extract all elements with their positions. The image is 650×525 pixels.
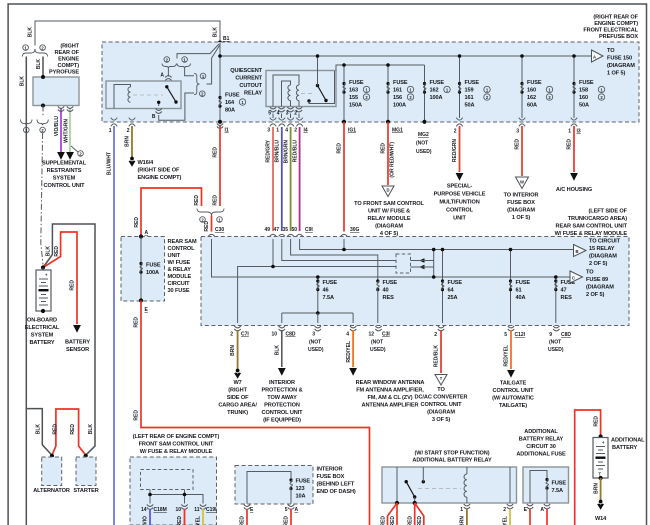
svg-text:TO: TO <box>586 270 594 276</box>
fuse 64 <box>442 250 444 324</box>
fuse 123 <box>289 478 292 490</box>
svg-text:156: 156 <box>393 95 402 101</box>
svg-text:FUSE: FUSE <box>225 93 240 99</box>
svg-text:TO: TO <box>607 48 615 54</box>
svg-text:RED: RED <box>240 516 246 525</box>
wire RED from fuse100A A-node horizontal <box>141 188 202 237</box>
relay coil1 <box>288 85 291 101</box>
svg-text:RED: RED <box>594 416 600 427</box>
svg-text:BLK: BLK <box>88 424 94 435</box>
variant circle 2 bottom <box>40 127 46 133</box>
wire BLK variant1 long left run down to alternator branch <box>25 57 27 525</box>
wire RED battery to sensor <box>43 232 77 324</box>
svg-text:RED: RED <box>70 280 76 291</box>
svg-text:2: 2 <box>294 111 297 117</box>
svg-text:W/ FUSE: W/ FUSE <box>168 260 191 266</box>
wire variant1 to right brace <box>185 68 194 75</box>
svg-text:BRN: BRN <box>594 483 600 494</box>
relay fixed contact to bus2 <box>307 99 310 102</box>
svg-text:150A: 150A <box>349 103 362 109</box>
relay coil2 <box>296 85 299 101</box>
svg-text:COMPT): COMPT) <box>58 63 80 69</box>
additional battery relay box <box>382 467 517 503</box>
svg-text:160: 160 <box>579 95 588 101</box>
svg-text:BLK: BLK <box>213 27 219 38</box>
svg-text:(LEFT SIDE OF: (LEFT SIDE OF <box>589 209 628 215</box>
svg-text:5: 5 <box>268 111 271 117</box>
svg-text:(RIGHT: (RIGHT <box>60 44 79 50</box>
connector X 50 RED/BLU <box>296 118 302 127</box>
svg-text:158: 158 <box>579 88 588 94</box>
interior fuse box exits <box>244 505 250 510</box>
ground W16/4 <box>129 157 136 167</box>
wire RED/YEL tailgate <box>510 330 512 369</box>
wire BLK variant2 into pyrofuse <box>42 57 44 78</box>
svg-text:B: B <box>576 249 579 254</box>
connector X 49 RED/GRY <box>270 118 276 127</box>
interior fuse box wires <box>247 472 291 504</box>
svg-text:(W/ START STOP FUNCTION): (W/ START STOP FUNCTION) <box>415 451 490 457</box>
svg-text:FUSE: FUSE <box>516 280 531 286</box>
svg-text:RED: RED <box>194 195 200 206</box>
svg-text:(NOT: (NOT <box>371 340 383 346</box>
svg-text:RED: RED <box>515 139 521 150</box>
svg-text:CUTOUT: CUTOUT <box>239 83 262 89</box>
relay right wire pin2 <box>509 467 511 503</box>
wire YEL front SAM <box>202 509 204 525</box>
svg-text:2: 2 <box>454 129 457 135</box>
svg-text:162: 162 <box>527 95 536 101</box>
svg-text:FUSE 89: FUSE 89 <box>586 277 608 283</box>
wire from brace tip to bus1 <box>207 46 220 85</box>
svg-text:(NOT: (NOT <box>416 141 428 147</box>
brace pair above variant circles at bottom of BLK runs <box>21 120 33 126</box>
svg-text:USED): USED) <box>548 347 564 353</box>
svg-text:50: 50 <box>291 227 297 233</box>
svg-text:C18M: C18M <box>154 507 167 513</box>
wire RED to A/C housing <box>573 126 575 172</box>
svg-text:FUSE: FUSE <box>552 481 567 487</box>
svg-text:10: 10 <box>271 332 277 338</box>
svg-text:RES: RES <box>383 295 395 301</box>
connector pin9 C8D not used <box>553 326 559 331</box>
wire RED alternator-starter jumper <box>52 409 86 455</box>
rear SAM box <box>201 237 629 326</box>
svg-text:C12I: C12I <box>515 332 526 338</box>
fuse 7.5A <box>545 478 548 490</box>
svg-text:CONTROL UNIT: CONTROL UNIT <box>44 183 86 189</box>
triangle A to fuse 150 <box>592 50 604 62</box>
svg-text:UNIT: UNIT <box>168 253 181 259</box>
svg-text:USED): USED) <box>308 347 324 353</box>
relay coil lead <box>114 85 131 109</box>
svg-text:(DIAGRAM: (DIAGRAM <box>507 208 535 214</box>
svg-text:2: 2 <box>127 128 130 134</box>
node E <box>139 298 143 302</box>
connector pin3 not used <box>315 326 321 331</box>
svg-text:RED: RED <box>390 516 396 525</box>
relay pin2 connector <box>507 504 513 509</box>
wire BRN to ground <box>131 126 133 157</box>
wire BRN to W7 <box>237 330 239 369</box>
wire BRN/BLU <box>281 127 283 231</box>
exits E and A <box>527 504 533 509</box>
node pyrofuse top <box>41 75 45 79</box>
svg-text:ADDITIONAL BATTERY RELAY: ADDITIONAL BATTERY RELAY <box>412 458 492 464</box>
node relay left exit <box>395 501 399 505</box>
svg-text:RED: RED <box>204 221 210 232</box>
wire RED I1 down <box>219 126 221 206</box>
svg-text:47: 47 <box>561 288 567 294</box>
svg-text:2: 2 <box>294 128 297 134</box>
svg-text:C8D: C8D <box>561 332 571 338</box>
dash-dot wire pyrofuse to battery <box>41 106 43 265</box>
svg-text:ENGINE COMPT): ENGINE COMPT) <box>594 21 638 27</box>
wire C30 to row B <box>212 239 571 277</box>
fuse 47 <box>555 277 557 323</box>
svg-text:(RIGHT REAR OF: (RIGHT REAR OF <box>593 15 638 21</box>
svg-text:INTERIOR: INTERIOR <box>269 380 295 386</box>
connector X pin2 RED/GRN <box>456 118 462 127</box>
triangle W interior fuse box <box>516 177 529 189</box>
interior fuse box <box>235 466 313 505</box>
svg-text:A: A <box>540 507 544 513</box>
svg-text:(IF EQUIPPED): (IF EQUIPPED) <box>263 418 301 424</box>
brace pair under variant circles <box>162 64 176 69</box>
wire BLK interior protection <box>281 330 283 367</box>
svg-text:40: 40 <box>383 288 389 294</box>
svg-text:REAR OF: REAR OF <box>55 50 80 56</box>
wire WHT/GRN from pyrofuse <box>69 109 71 153</box>
wire RED circuit30 run to bottom right <box>141 301 370 525</box>
fuse 46 <box>317 277 319 313</box>
wire VIO front SAM <box>149 509 151 525</box>
svg-text:A/C HOUSING: A/C HOUSING <box>556 187 592 193</box>
inner wire E to A <box>530 471 547 504</box>
front SAM inner module box <box>141 470 194 490</box>
svg-text:4: 4 <box>285 128 288 134</box>
svg-text:3 OF 5): 3 OF 5) <box>432 417 450 423</box>
svg-text:40A: 40A <box>516 295 526 301</box>
svg-text:FRONT SAM CONTROL UNIT: FRONT SAM CONTROL UNIT <box>139 442 214 448</box>
arrow antenna <box>349 368 357 376</box>
svg-text:W/ FUSE & RELAY MODULE: W/ FUSE & RELAY MODULE <box>140 449 213 455</box>
node MG1 <box>386 120 390 124</box>
connectors into rear SAM <box>270 234 276 239</box>
node A <box>139 234 143 238</box>
svg-text:12: 12 <box>368 332 374 338</box>
fuse 159/161 <box>459 56 461 118</box>
svg-text:161: 161 <box>465 95 474 101</box>
node I1 on prefuse edge <box>218 120 222 124</box>
svg-text:47: 47 <box>273 227 279 233</box>
wire 50 to row A <box>300 239 574 250</box>
svg-text:SPECIAL-: SPECIAL- <box>447 184 473 190</box>
junction on bus1 <box>316 54 320 58</box>
svg-text:2: 2 <box>434 332 437 338</box>
svg-text:DC/AC CONVERTER: DC/AC CONVERTER <box>415 395 468 401</box>
relay pins 5 4 3 2 connectors <box>270 107 276 112</box>
svg-text:1 OF 5): 1 OF 5) <box>607 71 625 77</box>
wire 30G to row A <box>343 239 345 250</box>
fuse 161/156 <box>387 65 389 122</box>
svg-text:(DIAGRAM: (DIAGRAM <box>589 254 617 260</box>
svg-text:TO: TO <box>437 387 445 393</box>
arrow tailgate <box>507 370 515 378</box>
front electrical prefuse box <box>102 42 639 122</box>
relay coil <box>466 467 468 474</box>
node alternator <box>50 454 54 458</box>
svg-text:REAR SAM CONTROL UNIT: REAR SAM CONTROL UNIT <box>556 224 628 230</box>
connector 30G <box>341 234 347 239</box>
ground W7 <box>234 369 241 379</box>
svg-text:5: 5 <box>504 332 507 338</box>
svg-text:FUSE: FUSE <box>393 80 408 86</box>
svg-text:3: 3 <box>312 332 315 338</box>
svg-text:CARGO AREA/: CARGO AREA/ <box>218 403 257 409</box>
svg-text:YEL: YEL <box>503 516 509 525</box>
svg-text:FUSE: FUSE <box>579 80 594 86</box>
wire 49 level <box>273 239 396 267</box>
connector C8D exit <box>279 326 285 331</box>
node additional battery plus <box>599 434 603 438</box>
variant circle 2 <box>40 45 46 51</box>
front SAM box <box>130 457 217 525</box>
wire RED pair left <box>388 503 398 525</box>
relay coil exit connector pin1 <box>464 504 470 509</box>
triangle B circuit 15 relay <box>574 245 587 257</box>
relay switch arm quiescent <box>318 86 327 101</box>
svg-text:CIRCUIT: CIRCUIT <box>168 281 191 287</box>
wire BRN to ground W14 <box>600 478 602 500</box>
svg-text:100A: 100A <box>146 270 159 276</box>
svg-text:C: C <box>572 275 575 280</box>
diode join vertical <box>433 250 435 278</box>
wire RED front SAM <box>184 509 186 525</box>
wire BRN/GRN <box>290 127 292 231</box>
pyrofuse box <box>33 77 79 106</box>
svg-text:CONTROL UNIT: CONTROL UNIT <box>493 388 535 394</box>
connector pin12 C3I not used <box>375 326 381 331</box>
svg-text:BATTERY: BATTERY <box>29 340 54 346</box>
svg-text:RED: RED <box>381 516 387 525</box>
alternator box <box>42 457 62 486</box>
svg-text:PYROFUSE: PYROFUSE <box>49 70 79 76</box>
svg-text:B1: B1 <box>223 36 230 42</box>
svg-text:5: 5 <box>285 507 288 513</box>
variant path wire from B1 to relay A braces <box>177 44 219 59</box>
svg-text:(NOT: (NOT <box>549 340 561 346</box>
svg-text:(NOT: (NOT <box>309 340 321 346</box>
connector C30 <box>208 234 214 239</box>
svg-text:10A: 10A <box>296 494 306 500</box>
connector VIO/BLU <box>58 107 64 112</box>
svg-text:BRN: BRN <box>125 136 131 147</box>
relay switch arm <box>406 482 415 497</box>
wire RED under A <box>546 509 548 525</box>
svg-text:61: 61 <box>516 288 522 294</box>
svg-text:(DIAGRAM: (DIAGRAM <box>427 410 455 416</box>
svg-text:BATTERY: BATTERY <box>65 340 90 346</box>
brace right (collector) <box>194 73 200 94</box>
additional battery <box>593 438 608 479</box>
svg-text:1: 1 <box>276 128 279 134</box>
svg-text:CURRENT: CURRENT <box>235 76 262 82</box>
arrow interior protection <box>278 368 286 376</box>
svg-text:UNIT W/ FUSE &: UNIT W/ FUSE & <box>368 209 410 215</box>
svg-text:BRN/GRN: BRN/GRN <box>284 140 290 164</box>
svg-text:IG1: IG1 <box>348 128 356 134</box>
relay fixed contact <box>422 480 425 483</box>
relay inner wire pin5 <box>273 75 299 107</box>
svg-text:163: 163 <box>349 88 358 94</box>
svg-text:CONTROL: CONTROL <box>446 208 474 214</box>
svg-text:ENGINE COMPT): ENGINE COMPT) <box>138 175 182 181</box>
svg-text:W14: W14 <box>595 516 607 522</box>
svg-text:CONTROL UNIT: CONTROL UNIT <box>421 402 463 408</box>
svg-text:USED): USED) <box>416 149 432 155</box>
svg-text:(DIAGRAM: (DIAGRAM <box>607 63 635 69</box>
svg-text:RELAY MODULE: RELAY MODULE <box>368 216 411 222</box>
arrow to SRS (VIO/BLU) <box>57 152 65 160</box>
svg-text:MG2: MG2 <box>418 132 429 138</box>
variant circle 2 <box>164 57 170 63</box>
svg-text:123: 123 <box>296 486 305 492</box>
diode module box <box>396 254 411 273</box>
relay link dashed <box>301 93 314 95</box>
node B1 <box>218 41 222 45</box>
wire RED pair right <box>414 503 416 525</box>
wire RED interior E <box>246 509 248 525</box>
svg-text:RED/YEL: RED/YEL <box>346 341 352 363</box>
connector B <box>156 109 162 114</box>
svg-text:161: 161 <box>393 88 402 94</box>
connector WHT/GRN <box>67 107 73 112</box>
svg-text:ALTERNATOR: ALTERNATOR <box>33 488 70 494</box>
svg-text:1: 1 <box>109 128 112 134</box>
svg-text:FUSE: FUSE <box>349 80 364 86</box>
svg-text:RED: RED <box>408 516 414 525</box>
svg-text:30G: 30G <box>350 227 360 233</box>
svg-text:7.5A: 7.5A <box>552 488 563 494</box>
svg-text:A: A <box>295 507 299 513</box>
relay inner left wire <box>396 467 398 503</box>
fuse 61 <box>510 250 512 324</box>
wire RED/GRY <box>272 127 274 231</box>
svg-text:FUSE: FUSE <box>527 80 542 86</box>
svg-text:PROTECTION &: PROTECTION & <box>261 388 302 394</box>
svg-text:RED: RED <box>54 246 60 257</box>
fuse 46 distribution bar <box>282 312 353 314</box>
svg-text:TRUNK): TRUNK) <box>227 410 248 416</box>
relay switch arm <box>167 87 176 102</box>
relay coil <box>128 87 131 102</box>
svg-text:ADDITIONAL FUSE: ADDITIONAL FUSE <box>516 452 566 458</box>
svg-text:2: 2 <box>230 332 233 338</box>
svg-text:ADDITIONAL: ADDITIONAL <box>524 429 558 435</box>
svg-text:BLK: BLK <box>36 424 42 435</box>
svg-text:ELECTRICAL: ELECTRICAL <box>25 325 60 331</box>
svg-text:9: 9 <box>549 332 552 338</box>
svg-text:I1: I1 <box>225 128 229 134</box>
variant circle 2 right <box>200 91 206 97</box>
svg-text:MODULE: MODULE <box>168 274 192 280</box>
relay coil tails to pins 3,2 <box>290 101 292 107</box>
svg-text:1: 1 <box>568 129 571 135</box>
svg-text:BATTERY: BATTERY <box>612 445 637 451</box>
svg-text:3: 3 <box>267 128 270 134</box>
connector pin2 RED/BLK exit <box>438 326 444 331</box>
svg-text:PURPOSE VEHICLE: PURPOSE VEHICLE <box>434 192 486 198</box>
svg-text:FUSE BOX: FUSE BOX <box>507 200 535 206</box>
wire pivot to bus1 <box>317 56 319 86</box>
svg-text:159: 159 <box>465 88 474 94</box>
wire BLK branch to alternator <box>26 409 52 456</box>
svg-text:MG1: MG1 <box>392 128 403 134</box>
ground W14 <box>597 500 604 510</box>
triangle D to front SAM <box>382 186 394 197</box>
wire VIO/BLU from pyrofuse <box>60 109 62 153</box>
node MG2 not used <box>422 120 426 124</box>
fuse 163/155 <box>343 65 345 122</box>
svg-text:RED/BLU: RED/BLU <box>293 140 299 163</box>
arrow to SRS (WHT/GRN) <box>66 152 74 160</box>
svg-text:7.5A: 7.5A <box>323 295 334 301</box>
relay (cutout relay left) box <box>106 81 181 109</box>
svg-text:I4: I4 <box>304 128 308 134</box>
svg-text:(BEHIND LEFT: (BEHIND LEFT <box>317 482 355 488</box>
connector pin4 RED/YEL exit <box>350 326 356 331</box>
svg-text:49: 49 <box>264 227 270 233</box>
svg-text:RESTRAINTS: RESTRAINTS <box>47 168 82 174</box>
arrow A/C housing <box>570 173 578 181</box>
wire RED long feeder additional battery <box>575 410 601 525</box>
svg-text:2 OF 5): 2 OF 5) <box>586 292 604 298</box>
connector X pin1 I3 RED <box>571 118 577 127</box>
svg-text:A: A <box>160 73 164 79</box>
svg-text:RED: RED <box>567 139 573 150</box>
svg-text:60A: 60A <box>527 103 537 109</box>
svg-text:ANTENNA AMPLIFIER: ANTENNA AMPLIFIER <box>362 403 419 409</box>
connector X pin1 BLU/WHT <box>111 118 117 127</box>
svg-text:VIO/BLU: VIO/BLU <box>54 116 60 137</box>
wire BRN relay pin1 <box>466 509 468 525</box>
svg-text:USED): USED) <box>370 347 386 353</box>
svg-text:(DIAGRAM: (DIAGRAM <box>375 224 403 230</box>
wire BLK battery loop to starter <box>43 224 95 455</box>
svg-text:MULTIFUNTION: MULTIFUNTION <box>439 200 479 206</box>
svg-text:3: 3 <box>286 111 289 117</box>
svg-text:FM, AM & CL (ZV): FM, AM & CL (ZV) <box>367 395 412 401</box>
svg-text:RED/GRN: RED/GRN <box>452 139 458 162</box>
svg-text:PREFUSE BOX: PREFUSE BOX <box>599 34 638 40</box>
variant circle 2 tick on WHT/GRN <box>71 146 78 152</box>
svg-text:155: 155 <box>349 95 358 101</box>
svg-text:RED: RED <box>213 147 219 158</box>
svg-text:BLK: BLK <box>20 76 26 87</box>
svg-text:RED/GRY: RED/GRY <box>266 139 272 162</box>
svg-text:T: T <box>599 472 602 477</box>
wire variant2 from brace to relay pin B <box>159 93 194 120</box>
svg-text:162: 162 <box>430 88 439 94</box>
svg-text:25A: 25A <box>448 295 458 301</box>
svg-text:FUSE: FUSE <box>296 479 311 485</box>
svg-text:4: 4 <box>346 332 349 338</box>
svg-text:W16/4: W16/4 <box>138 160 155 166</box>
svg-text:11: 11 <box>194 507 200 513</box>
svg-text:BRN/BLU: BRN/BLU <box>275 140 281 163</box>
circuit 30 fuse box (rear SAM) <box>121 237 165 302</box>
